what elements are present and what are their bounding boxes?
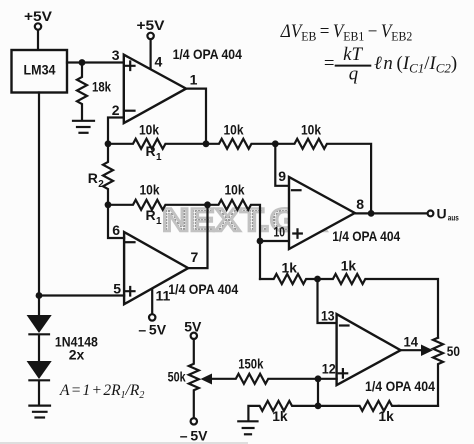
resistor 10k (feedback U1c) [275, 122, 371, 214]
wire diode to ground [38, 381, 40, 404]
svg-text:A = 1 + 2R1/R2: A = 1 + 2R1/R2 [59, 382, 144, 401]
svg-text:1/4 OPA 404: 1/4 OPA 404 [332, 228, 400, 244]
svg-text:R: R [146, 143, 156, 159]
resistor 10k (row1 mid) [206, 122, 275, 149]
svg-text:1: 1 [156, 152, 162, 163]
wire pin 7 output riser [188, 205, 207, 268]
svg-text:1k: 1k [272, 408, 288, 424]
svg-text:10k: 10k [225, 182, 245, 198]
wire riser to 1k row [259, 241, 261, 279]
resistor 18k [77, 63, 111, 120]
resistor 10k (row2 right) [208, 182, 290, 242]
svg-text:10k: 10k [224, 122, 244, 138]
svg-text:4: 4 [155, 53, 163, 69]
svg-text:1k: 1k [378, 408, 394, 424]
svg-text:3: 3 [112, 47, 120, 63]
+5V supply terminal (top-left) [24, 8, 53, 30]
svg-text:– 5V: – 5V [138, 321, 166, 337]
svg-text:1k: 1k [341, 258, 357, 274]
-5V terminal (pin 11) [138, 314, 166, 337]
wire output U1c [355, 212, 428, 214]
node pin9 junction [272, 140, 279, 147]
wire pin 4 [150, 39, 152, 69]
potentiometer 50k [168, 319, 209, 444]
wire pin 9 riser [275, 144, 289, 186]
node A (R1 left) [105, 140, 112, 147]
resistor R1 10k (row2 left) [108, 182, 208, 228]
svg-text:9: 9 [278, 168, 286, 184]
scan artifact line (bottom-left) [0, 442, 248, 444]
node pin10 junction [257, 238, 264, 245]
svg-text:1/4 OPA 404: 1/4 OPA 404 [173, 46, 242, 62]
node pin12 junction [315, 375, 322, 382]
svg-text:– 5V: – 5V [180, 428, 208, 444]
svg-text:10k: 10k [139, 122, 159, 138]
svg-text:5: 5 [113, 281, 121, 297]
node pin7 junction [204, 201, 211, 208]
svg-text:18k: 18k [92, 79, 111, 95]
wire pin 11 [151, 289, 153, 314]
sensor LM34 [12, 50, 68, 93]
wire pin 12 [318, 378, 337, 380]
svg-text:LM34: LM34 [24, 62, 56, 78]
svg-text:+5V: +5V [137, 17, 166, 33]
wiper arrow 50k [201, 374, 213, 385]
wire LM34 to pin 3 [67, 61, 124, 63]
wire +5V to LM34 [37, 30, 39, 50]
diode D1 1N4148 [27, 296, 52, 335]
svg-text:1k: 1k [282, 260, 298, 276]
svg-text:10k: 10k [140, 182, 160, 198]
svg-text:14: 14 [404, 334, 419, 350]
svg-text:150k: 150k [238, 356, 263, 372]
op-amp U1c (pins 9,10,8) [289, 177, 355, 249]
svg-text:aus: aus [448, 214, 459, 223]
svg-text:=: = [324, 53, 335, 74]
node pin5/diode junction [36, 292, 43, 299]
svg-text:12: 12 [322, 361, 336, 377]
svg-text:10: 10 [274, 224, 286, 240]
svg-text:kT: kT [343, 44, 363, 65]
svg-text:1/4 OPA 404: 1/4 OPA 404 [168, 281, 238, 297]
wire pin 13 [318, 279, 337, 323]
svg-text:8: 8 [356, 196, 364, 212]
node output U1c [368, 210, 375, 217]
ground (18k) [73, 121, 94, 133]
node pin13 junction [314, 276, 321, 283]
+5V supply terminal (pin 4) [137, 17, 166, 39]
wire pin 2 feedback riser [108, 118, 124, 144]
wire output U1d with arrow [401, 349, 421, 351]
node op1 output row1 [203, 140, 210, 147]
svg-text:U: U [437, 206, 447, 222]
ground (diodes) [29, 406, 50, 418]
bottom row: wire pot to 1k [399, 405, 438, 407]
svg-text:2x: 2x [69, 346, 85, 362]
wire pin 5 [39, 294, 124, 296]
svg-text:1: 1 [156, 216, 162, 227]
wire pin 6 [108, 205, 124, 238]
op-amp U1a (pins 3,2,1,4) [124, 55, 186, 123]
op-amp U1d (pins 13,12,14) [337, 314, 401, 385]
resistor R2 [88, 144, 113, 205]
svg-text:50k: 50k [168, 369, 186, 385]
resistor 1k (bottom left) [248, 401, 318, 424]
resistor 150k [211, 356, 318, 384]
svg-text:R: R [146, 207, 156, 223]
svg-text:7: 7 [191, 249, 199, 265]
diode D2 1N4148 [27, 335, 52, 380]
svg-text:+5V: +5V [24, 8, 53, 24]
svg-text:11: 11 [156, 288, 171, 304]
svg-text:R: R [88, 170, 98, 186]
resistor 1k (row3 right) [318, 258, 439, 338]
wire LM34 bottom rail [38, 93, 40, 296]
formula dVEB [280, 21, 457, 85]
svg-text:10k: 10k [301, 122, 321, 138]
resistor R1 10k (row1 left) [108, 122, 206, 164]
ground (1k) [238, 421, 257, 434]
svg-text:1: 1 [190, 72, 198, 88]
svg-text:6: 6 [112, 222, 120, 238]
svg-text:1/4 OPA 404: 1/4 OPA 404 [365, 378, 435, 394]
resistor 1k (bottom right) [318, 401, 399, 424]
svg-text:50: 50 [447, 343, 460, 359]
resistor 1k (row3 left) [260, 260, 318, 285]
svg-text:q: q [349, 63, 358, 84]
svg-text:13: 13 [321, 307, 335, 323]
potentiometer 50 [433, 338, 460, 406]
svg-text:2: 2 [112, 102, 120, 118]
node B (R2 bottom) [105, 201, 112, 208]
wire pin12 riser [317, 379, 319, 406]
op-amp U1b (pins 6,5,7,11) [124, 232, 188, 304]
node bottom junction [315, 403, 322, 410]
node LM34/18k junction [79, 59, 86, 66]
svg-text:2: 2 [98, 179, 104, 190]
wire op1 output to row1 [186, 89, 206, 144]
terminal Uaus [428, 206, 460, 223]
